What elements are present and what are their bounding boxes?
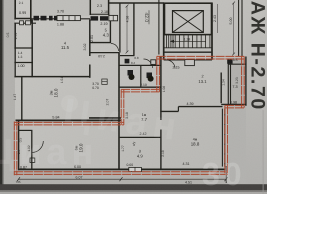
door arc bottom-left xyxy=(32,141,44,153)
wall: room 4.3 right xyxy=(109,21,111,43)
wall: 7.3 bottom xyxy=(221,103,246,105)
wall: cy room top xyxy=(120,136,162,138)
faint scan edge right xyxy=(262,110,264,194)
door rect 2 xyxy=(26,21,31,25)
wall: room 11.5 left xyxy=(31,20,33,78)
door arc hall xyxy=(144,59,153,68)
stair landing bottom wall xyxy=(164,51,212,53)
wall: wc cluster top xyxy=(119,64,162,66)
red left vertical pair xyxy=(13,122,15,176)
scan frame: left dark bar xyxy=(0,0,3,186)
wall: hall left xyxy=(119,3,121,53)
balcony 2 left wall xyxy=(89,0,91,15)
wall: jog at hall bottom xyxy=(120,55,135,57)
vent square+circle 2 xyxy=(147,73,153,79)
wall: room 18.0 top xyxy=(14,76,90,78)
balcony 2 right wall xyxy=(108,0,110,15)
scan paper background xyxy=(0,0,267,194)
scan noise overlay xyxy=(0,0,1,1)
wall: bottom facade xyxy=(18,168,226,170)
wall: left facade mid (to room 18.0 top) xyxy=(14,48,16,77)
red bottom horizontal pair xyxy=(14,171,227,173)
door arc niche xyxy=(111,44,119,52)
red right vertical pair xyxy=(241,56,243,107)
watermark: circle blob xyxy=(61,95,78,112)
dimension line bottom xyxy=(18,178,227,180)
vent square 2 xyxy=(227,60,232,64)
wall: between 11.5 and corridor, upper xyxy=(89,20,91,57)
elevator outer box xyxy=(165,3,212,34)
wall stub below red corner xyxy=(225,166,227,183)
wall: corridor bottom thick part xyxy=(89,117,121,119)
wall: room 7.3 left double xyxy=(227,60,229,105)
wall: bathroom top xyxy=(19,129,33,131)
wall: top facade of hall xyxy=(108,2,164,4)
wall: 18.8 / 4.9 divider xyxy=(160,111,162,120)
elevator inner box with X xyxy=(173,11,204,33)
red top long horizontal pair xyxy=(157,55,244,57)
wall: 7.3 top xyxy=(228,63,246,65)
wall: closet bottom xyxy=(14,62,33,64)
wall: right facade lower xyxy=(245,57,247,106)
wall: entry wall below balcony1 xyxy=(14,22,36,24)
door arc 13.1 entry xyxy=(167,60,176,69)
red top-left horizontal pair xyxy=(14,121,124,123)
dim line 5.00 xyxy=(233,3,235,54)
building interior light fill xyxy=(15,0,246,170)
door threshold box small xyxy=(151,60,156,65)
wall: balcony 1 left xyxy=(14,0,16,20)
right strip background xyxy=(246,0,267,194)
wall: room 18.8 window wall (double) xyxy=(221,109,223,167)
wall: stair block left xyxy=(163,3,165,60)
wall: between 13.1 and 7.3 xyxy=(220,73,222,104)
wall: corridor top (below 4.3) xyxy=(90,52,119,54)
wall: stair block right xyxy=(211,3,213,60)
stair arrow xyxy=(170,40,206,42)
red jog horizontal pair xyxy=(225,104,244,106)
wall: right facade upper double xyxy=(238,0,240,56)
wall: shaft left of stairs xyxy=(158,0,160,55)
red mid vertical up pair xyxy=(156,56,158,92)
wall: room 4.3 bottom xyxy=(90,42,111,44)
wall: corridor 4.58 right xyxy=(133,3,135,56)
stair bottom edge xyxy=(165,47,212,49)
wall: room 18.0 bottom / 19.0 top xyxy=(16,119,122,121)
window bay D xyxy=(109,15,118,20)
dim line 2.43 xyxy=(217,4,219,33)
dim line 4.58 xyxy=(126,6,128,52)
red mid vertical pair xyxy=(120,89,122,125)
wall: room 13.1 left xyxy=(160,57,162,112)
top outside lighter xyxy=(31,0,111,16)
wall: wc cluster bottom xyxy=(119,86,162,88)
balcony 2 bottom xyxy=(90,13,110,15)
red mid horizontal pair xyxy=(121,88,159,90)
red right lower vertical pair xyxy=(224,105,226,174)
vent square 1 xyxy=(125,59,130,64)
window band B (outlined boxes) xyxy=(57,16,80,21)
landing lower edge xyxy=(164,59,212,61)
wall: balcony 1 right xyxy=(30,0,32,23)
wall: long vertical spine xyxy=(118,53,120,170)
wall: left facade bottom xyxy=(18,120,20,170)
wall: 13.1 bottom left part xyxy=(161,110,179,112)
wall: wc divider xyxy=(140,65,142,87)
door box on bathroom wall xyxy=(30,158,35,162)
sink symbol xyxy=(102,79,107,84)
window in bottom wall 2 xyxy=(129,167,142,171)
red dashed apartment outline (double lines) xyxy=(14,56,244,175)
wall: step between levels xyxy=(177,107,179,112)
window band A (black blocks) xyxy=(34,16,40,21)
scan frame: bottom dark band xyxy=(0,184,267,190)
door rect 1 xyxy=(20,21,24,25)
wall: bathroom right (bottom-left) xyxy=(31,130,33,170)
wall: top facade with windows xyxy=(31,18,90,20)
wall: 13.1 bottom right part xyxy=(178,106,222,108)
door threshold box landing xyxy=(185,60,195,66)
stair treads xyxy=(167,35,210,48)
wall: left facade upper xyxy=(14,23,16,49)
wall: left facade lower xyxy=(21,77,23,121)
wall: same, lower segment after door gap xyxy=(89,65,91,78)
vent square+circle 1 xyxy=(128,70,134,76)
wall: balcony 1 bottom xyxy=(14,18,31,20)
window band C (black blocks under balcony 2) xyxy=(91,16,99,20)
wall: closet top xyxy=(14,47,33,49)
